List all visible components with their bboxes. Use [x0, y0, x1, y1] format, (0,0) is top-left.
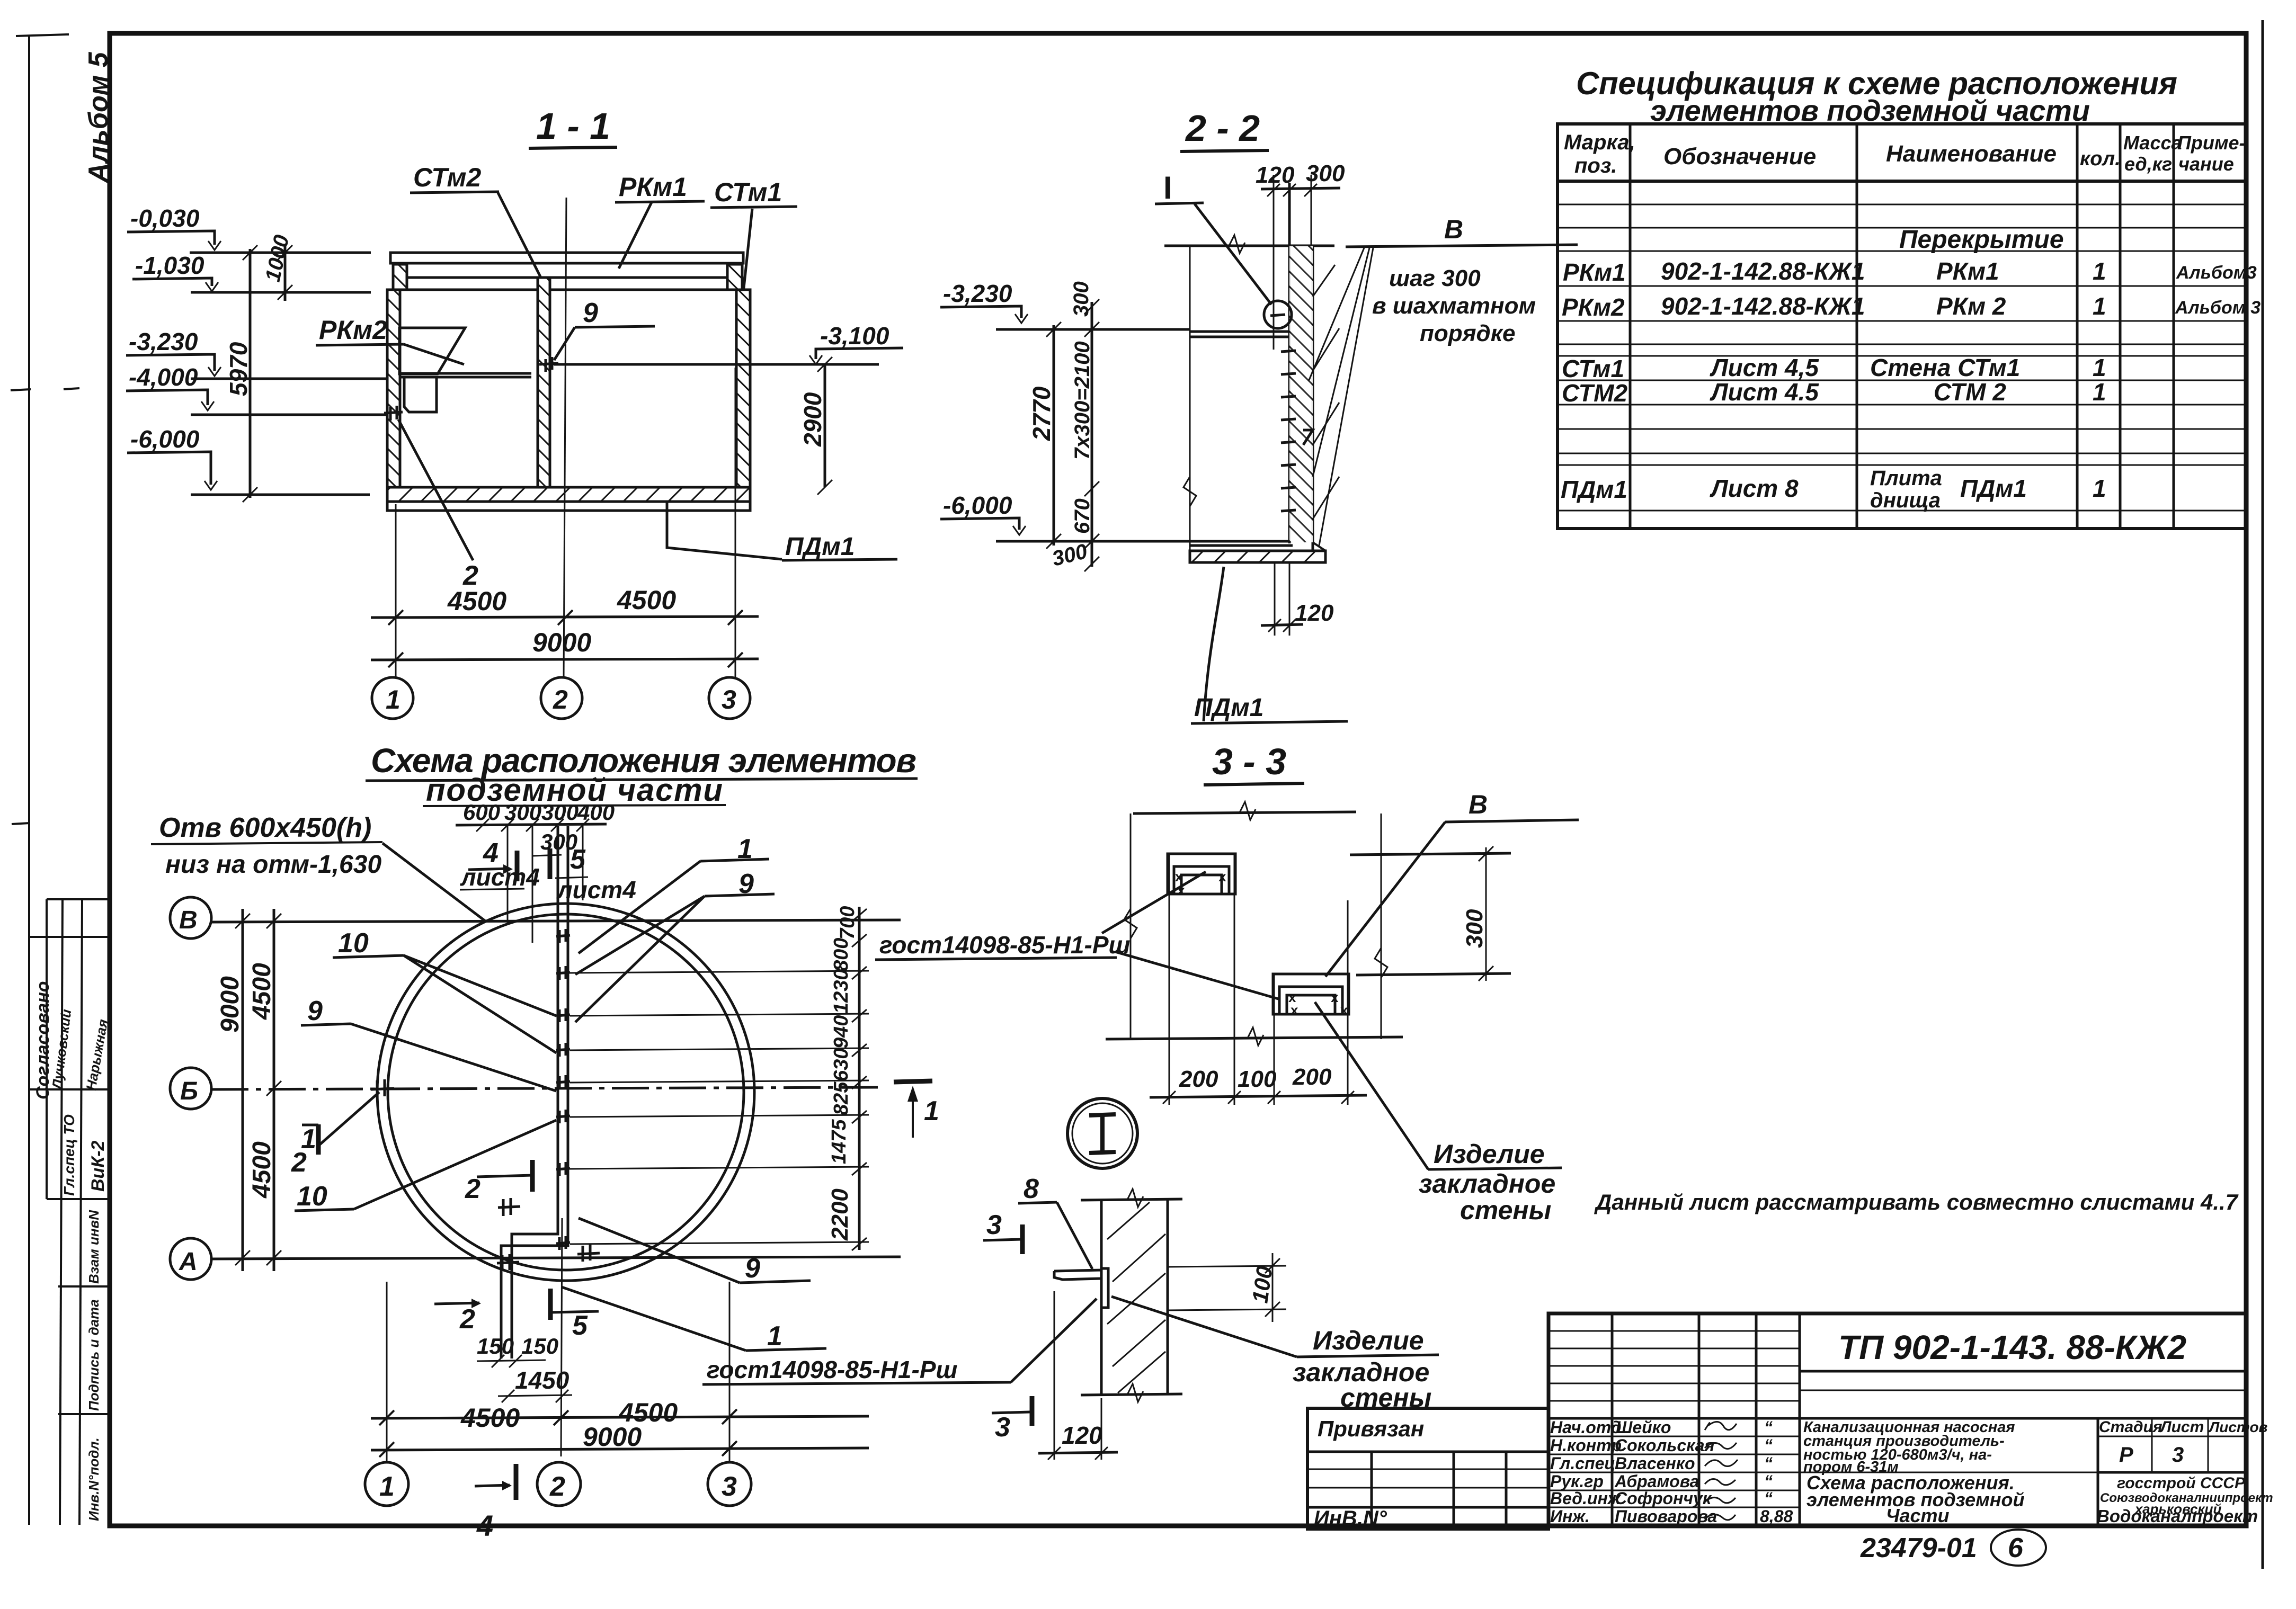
label 9 left	[307, 996, 323, 1026]
header texts	[1564, 131, 2246, 177]
svg-text:Альбом 3: Альбом 3	[2175, 298, 2261, 318]
wall top break	[1081, 1199, 1182, 1200]
svg-text:СТМ2: СТМ2	[1562, 379, 1627, 407]
sheet name cell	[1800, 1472, 2098, 1473]
SECTION22	[940, 108, 1578, 723]
svg-text:Листов: Листов	[2208, 1419, 2268, 1435]
svg-text:Абрамова: Абрамова	[1614, 1472, 1699, 1491]
break mark top	[1229, 235, 1245, 253]
svg-text:700: 700	[836, 906, 859, 940]
svg-text:300: 300	[541, 800, 579, 825]
svg-text:630: 630	[830, 1048, 852, 1081]
wall hatch	[1107, 1202, 1165, 1393]
svg-text:120: 120	[1062, 1422, 1102, 1449]
note Otv 600x450	[159, 812, 381, 879]
title 3-3	[1212, 741, 1286, 782]
svg-text:В: В	[1469, 790, 1488, 819]
label 1 bottom right	[767, 1321, 782, 1352]
bottom line with break	[1106, 1037, 1403, 1039]
big plan title line2	[426, 772, 723, 808]
title 2-2	[1185, 108, 1260, 149]
level line right chamber	[554, 363, 879, 366]
svg-text:В: В	[179, 906, 198, 934]
joint mark left wall	[384, 406, 403, 421]
stadia list listov	[2097, 1418, 2099, 1525]
header bottom	[1558, 180, 2246, 183]
svg-text:600: 600	[463, 800, 500, 825]
svg-text:Б: Б	[180, 1077, 198, 1105]
spec title	[1576, 66, 2177, 127]
svg-text:1: 1	[2093, 354, 2106, 381]
label 9 bottom right	[745, 1253, 760, 1284]
TITLEBLOCK	[1307, 1313, 2273, 1566]
svg-text:2 - 2: 2 - 2	[1185, 108, 1260, 149]
svg-text:4500: 4500	[617, 585, 676, 615]
channel section 1	[1168, 854, 1235, 894]
note danny list	[1594, 1190, 2239, 1214]
big plan title line1	[371, 741, 916, 780]
svg-text:элементов подземной части: элементов подземной части	[1650, 94, 2090, 127]
sidebar row lines	[47, 898, 110, 900]
svg-text:1: 1	[386, 685, 401, 714]
left break line	[1189, 246, 1191, 562]
svg-text:x: x	[1291, 1002, 1298, 1018]
svg-text:2770: 2770	[1028, 386, 1055, 441]
svg-text:-3,230: -3,230	[943, 280, 1012, 307]
wall jog bottom	[512, 1218, 558, 1358]
leader izdelie1	[1315, 1002, 1428, 1169]
table outer	[1558, 124, 2246, 529]
axis circle B	[170, 1068, 211, 1109]
svg-text:-0,030: -0,030	[130, 204, 200, 232]
svg-text:1: 1	[2093, 475, 2106, 502]
elevation -3,100	[820, 322, 889, 350]
interior step box	[404, 377, 437, 412]
detail circle on wall	[1264, 301, 1292, 328]
dim stack 300/7x300/670/300	[1091, 302, 1093, 567]
row PDm1	[1561, 467, 2106, 512]
axis circle A	[170, 1238, 211, 1280]
axis circle 3	[709, 677, 750, 719]
svg-text:РКм1: РКм1	[1936, 257, 1999, 285]
top dims 600 300 300 400	[463, 800, 615, 825]
svg-text:Р: Р	[2119, 1443, 2133, 1467]
svg-text:чание: чание	[2178, 153, 2234, 175]
svg-text:100: 100	[1247, 1264, 1277, 1304]
grid line B dashdot	[211, 1087, 879, 1089]
grid line A	[211, 1257, 901, 1259]
rebar cluster template	[556, 929, 570, 943]
svg-text:“: “	[1764, 1418, 1773, 1437]
svg-text:Н.контр: Н.контр	[1550, 1436, 1622, 1455]
svg-text:Стена СТм1: Стена СТм1	[1870, 354, 2020, 381]
label PDm1	[785, 533, 855, 561]
leader PDm1	[1204, 567, 1224, 721]
svg-text:Отв 600х450(h): Отв 600х450(h)	[159, 812, 371, 843]
svg-text:x: x	[1331, 989, 1339, 1005]
label RKm2	[319, 315, 387, 345]
svg-text:ИнВ.N°: ИнВ.N°	[1314, 1507, 1387, 1530]
dim 300 right	[1485, 847, 1487, 981]
dim 9000 vertical	[242, 909, 244, 1271]
staple Z mark on wall	[1303, 430, 1313, 445]
elevation -6,000	[943, 491, 1012, 519]
title 1-1	[536, 105, 610, 147]
svg-text:2: 2	[459, 1304, 475, 1335]
svg-text:4: 4	[476, 1509, 493, 1542]
level line -1,030	[191, 291, 371, 294]
svg-text:Вед.инж: Вед.инж	[1550, 1489, 1621, 1508]
svg-text:1: 1	[924, 1096, 939, 1127]
svg-text:1230: 1230	[830, 969, 852, 1014]
plan axis extensions	[386, 1282, 388, 1462]
axis line 2	[564, 198, 566, 678]
svg-text:9: 9	[307, 996, 323, 1026]
svg-text:300: 300	[1462, 909, 1488, 948]
label RKm1	[619, 172, 687, 202]
leader otv	[382, 843, 485, 921]
dim 9000 bottom	[583, 1422, 642, 1452]
roof top plank	[390, 253, 743, 263]
svg-text:“: “	[1764, 1454, 1773, 1473]
GOST label 2	[707, 1356, 958, 1383]
level line -3,230	[191, 378, 387, 380]
top opening verticals	[507, 825, 509, 923]
dim 4500 4500 bottom	[460, 1398, 678, 1433]
left corner block	[393, 264, 407, 290]
dim line 4500-4500	[371, 616, 759, 618]
svg-text:РКм1: РКм1	[1563, 258, 1626, 286]
svg-text:2: 2	[465, 1174, 480, 1204]
svg-text:-3,100: -3,100	[820, 322, 889, 350]
rebar ticks on wall	[1281, 351, 1296, 511]
bottom rebar clusters	[497, 1198, 600, 1271]
wall foot	[1313, 542, 1325, 562]
svg-text:ПДм1: ПДм1	[1960, 475, 2027, 502]
leader izdelie2	[1111, 1297, 1297, 1357]
svg-text:-6,000: -6,000	[130, 425, 200, 453]
backfill hatch strokes	[1313, 265, 1339, 519]
column lines	[1629, 124, 1632, 529]
svg-text:Водоканалпроект: Водоканалпроект	[2097, 1506, 2258, 1526]
leader 1 top	[737, 834, 753, 864]
svg-text:4500: 4500	[447, 586, 506, 616]
svg-text:3: 3	[986, 1210, 1002, 1240]
row lines	[1558, 204, 2246, 511]
svg-text:x: x	[1340, 1002, 1348, 1018]
tank outer circle	[377, 904, 754, 1281]
svg-text:РКм2: РКм2	[319, 315, 387, 345]
detail circle I	[1067, 1098, 1137, 1168]
svg-text:1: 1	[2093, 378, 2106, 406]
svg-text:670: 670	[1071, 498, 1094, 534]
svg-text:5: 5	[572, 1310, 588, 1341]
leader STm1 to right wall	[743, 209, 752, 298]
svg-text:1475: 1475	[828, 1119, 850, 1164]
signature rows	[1549, 1436, 1800, 1507]
svg-text:3 - 3: 3 - 3	[1212, 741, 1286, 782]
svg-text:I: I	[1163, 170, 1172, 205]
svg-text:9: 9	[583, 298, 598, 328]
elevation -4,000	[129, 363, 198, 391]
svg-text:Марка,: Марка,	[1564, 131, 1635, 154]
section mark 4 bottom	[475, 1485, 510, 1486]
leader I to circle	[1195, 204, 1271, 305]
svg-text:госстрой СССР: госстрой СССР	[2117, 1474, 2246, 1492]
leader PDm1	[667, 502, 782, 559]
top line with break	[1133, 812, 1356, 814]
signatures squiggles	[1705, 1422, 1738, 1519]
axis line 1	[395, 504, 397, 678]
svg-text:Лист 4,5: Лист 4,5	[1710, 354, 1819, 381]
GOST label 1	[879, 931, 1131, 959]
axis circle 1	[372, 677, 413, 719]
label 9	[583, 298, 598, 328]
label STm1	[714, 177, 782, 207]
dim 150 150	[477, 1334, 558, 1358]
svg-text:ПДм1: ПДм1	[1561, 476, 1627, 503]
stamp verticals left part	[1611, 1313, 1614, 1525]
svg-text:Подпись и дата: Подпись и дата	[86, 1299, 102, 1411]
svg-text:СТМ 2: СТМ 2	[1934, 378, 2006, 406]
izdelie label 1	[1419, 1139, 1555, 1225]
leader 9 to joint	[554, 327, 575, 360]
svg-text:А: А	[179, 1248, 198, 1276]
wall hatch	[1289, 246, 1313, 542]
svg-text:Гл.спец ТО: Гл.спец ТО	[61, 1114, 77, 1196]
wall bottom break	[1081, 1394, 1182, 1395]
svg-text:Обозначение: Обозначение	[1663, 144, 1816, 169]
dim line 9000	[371, 659, 759, 660]
svg-text:902-1-142.88-КЖ1: 902-1-142.88-КЖ1	[1661, 292, 1865, 320]
svg-text:Пивоварова: Пивоварова	[1615, 1507, 1717, 1526]
svg-text:ВиК-2: ВиК-2	[88, 1140, 108, 1192]
axis circle V	[170, 897, 211, 938]
svg-text:3: 3	[995, 1412, 1010, 1443]
svg-text:Гл.спец: Гл.спец	[1550, 1454, 1615, 1473]
leader RKm2	[404, 344, 464, 364]
axis circle 1 bottom	[365, 1462, 408, 1506]
label STm2	[413, 163, 481, 192]
svg-text:Софрончук: Софрончук	[1615, 1489, 1712, 1508]
svg-text:“: “	[1764, 1472, 1773, 1491]
leader 2 to wall joint	[398, 419, 473, 560]
level line -6,000	[996, 540, 1190, 543]
dim 2900	[824, 364, 826, 487]
elevation -1,030	[135, 252, 204, 279]
wall inner face	[1288, 183, 1291, 543]
row STm1	[1562, 354, 2106, 382]
rebar cluster on B axis left	[371, 1079, 394, 1097]
svg-text:Данный лист рассматривать совм: Данный лист рассматривать совместно слис…	[1594, 1190, 2239, 1214]
level line -6,000	[191, 494, 370, 496]
svg-text:23479-01: 23479-01	[1860, 1533, 1977, 1563]
roof slab lines	[398, 276, 737, 279]
designation cell	[1800, 1370, 2246, 1373]
row Perekrytie	[1899, 226, 2064, 254]
tank inner circle	[388, 914, 744, 1270]
svg-text:2900: 2900	[799, 392, 826, 447]
svg-text:гост14098-85-Н1-Рш: гост14098-85-Н1-Рш	[879, 931, 1131, 959]
horizontal tie lines right	[570, 971, 869, 1244]
ground top line	[1164, 245, 1334, 247]
svg-text:10: 10	[338, 928, 369, 959]
joint mark middle wall	[539, 357, 558, 372]
flag 4 list4	[483, 838, 499, 869]
svg-text:СТм2: СТм2	[413, 163, 481, 192]
svg-text:300: 300	[1070, 281, 1093, 317]
svg-text:4500: 4500	[248, 1141, 276, 1199]
svg-text:Лист: Лист	[2159, 1418, 2204, 1436]
svg-text:Лист 8: Лист 8	[1710, 475, 1799, 502]
RKm2 plate trapezoid	[399, 328, 465, 374]
svg-text:Нач.отд: Нач.отд	[1550, 1418, 1622, 1437]
label 2	[462, 560, 478, 591]
bottom slab double line	[1190, 540, 1289, 543]
elevation -3,230	[129, 328, 198, 355]
axis circle 3 bottom	[708, 1462, 751, 1506]
dim 1450	[515, 1366, 569, 1394]
vertical construction lines	[1131, 814, 1381, 1105]
svg-text:2200: 2200	[827, 1188, 853, 1241]
svg-text:В: В	[1444, 214, 1463, 244]
axis circle 2 bottom	[537, 1462, 581, 1506]
svg-text:10: 10	[297, 1181, 327, 1212]
level line -3,230	[996, 328, 1190, 331]
svg-text:1: 1	[2093, 292, 2106, 320]
svg-text:Взам инвN: Взам инвN	[86, 1210, 102, 1284]
sidebar column lines	[46, 899, 48, 1199]
svg-text:1: 1	[301, 1124, 316, 1155]
svg-text:x: x	[1218, 869, 1226, 884]
svg-text:кол.: кол.	[2080, 148, 2121, 170]
label 10	[338, 928, 369, 959]
staple leaders	[1309, 248, 1364, 381]
svg-text:Изделие: Изделие	[1434, 1139, 1545, 1169]
svg-text:9000: 9000	[532, 628, 591, 657]
svg-text:1: 1	[767, 1321, 782, 1352]
flag 5 list4	[570, 844, 586, 875]
right wall	[736, 290, 750, 487]
section mark 5	[548, 1289, 553, 1320]
row STM2	[1562, 378, 2106, 407]
svg-text:гост14098-85-Н1-Рш: гост14098-85-Н1-Рш	[707, 1356, 958, 1383]
dim 120 bottom	[1054, 1291, 1055, 1460]
svg-text:ТП 902-1-143. 88-КЖ2: ТП 902-1-143. 88-КЖ2	[1838, 1328, 2186, 1366]
svg-text:-1,030: -1,030	[135, 252, 204, 279]
svg-text:1 - 1: 1 - 1	[536, 105, 610, 147]
svg-text:Перекрытие: Перекрытие	[1899, 226, 2064, 254]
PLAN	[151, 800, 1131, 1542]
flag 8	[1024, 1174, 1039, 1204]
leader V to channel2	[1325, 822, 1445, 977]
wall right line	[1167, 1200, 1169, 1394]
leader RKm1 to roof	[619, 202, 652, 269]
org cell	[2097, 1474, 2273, 1526]
level line -4,000	[191, 414, 395, 416]
svg-text:Рук.гр: Рук.гр	[1550, 1472, 1604, 1491]
stamp lower header line	[1549, 1417, 2246, 1420]
elevation -0,030	[130, 204, 200, 232]
svg-text:940: 940	[830, 1015, 852, 1049]
dim 1000 vertical	[284, 245, 287, 301]
section mark 3 bottom	[995, 1412, 1010, 1443]
detail mark I	[1163, 170, 1172, 205]
svg-text:Инж.: Инж.	[1550, 1507, 1590, 1526]
svg-text:3: 3	[2172, 1443, 2184, 1467]
svg-text:Части: Части	[1886, 1505, 1950, 1526]
section mark 2 upper	[465, 1174, 480, 1204]
svg-text:-4,000: -4,000	[129, 363, 198, 391]
top dim line	[1261, 188, 1340, 189]
svg-text:1: 1	[2093, 257, 2106, 285]
channel section 2	[1273, 974, 1349, 1014]
wall left face	[1100, 1200, 1103, 1394]
svg-text:РКм1: РКм1	[619, 172, 687, 202]
main stamp outer	[1549, 1313, 2246, 1525]
svg-text:Приме-: Приме-	[2177, 132, 2246, 154]
svg-text:200: 200	[1179, 1066, 1218, 1092]
svg-text:150: 150	[521, 1334, 558, 1358]
svg-text:Масса: Масса	[2123, 132, 2182, 154]
bottom slab band hatched	[1190, 551, 1325, 562]
svg-text:Наименование: Наименование	[1886, 141, 2057, 167]
svg-text:СТм1: СТм1	[714, 177, 782, 207]
svg-text:Власенко: Власенко	[1615, 1454, 1695, 1473]
svg-text:Плита: Плита	[1870, 467, 1942, 490]
svg-text:Инв.N°подл.: Инв.N°подл.	[86, 1437, 102, 1521]
dim 100 right	[1168, 1266, 1286, 1267]
svg-text:Альбом 5: Альбом 5	[83, 51, 114, 184]
leader gost to channel2	[1115, 952, 1278, 999]
svg-text:3: 3	[722, 1471, 737, 1502]
svg-text:400: 400	[577, 800, 615, 825]
svg-text:ПДм1: ПДм1	[785, 533, 855, 561]
middle wall	[538, 278, 550, 487]
svg-text:РКм 2: РКм 2	[1936, 292, 2006, 320]
svg-text:6: 6	[2008, 1533, 2024, 1563]
svg-text:5970: 5970	[225, 342, 252, 396]
svg-text:4500: 4500	[248, 963, 276, 1020]
svg-text:шаг 300: шаг 300	[1389, 265, 1481, 291]
left wall	[387, 290, 400, 487]
svg-text:1: 1	[379, 1471, 395, 1502]
wall plan double line upper	[557, 826, 559, 1218]
svg-text:Шейко: Шейко	[1616, 1418, 1671, 1437]
svg-text:“: “	[1764, 1436, 1773, 1455]
dim texts 120 300	[1256, 160, 1345, 188]
svg-text:Альбом3: Альбом3	[2176, 263, 2257, 283]
section mark 3 top	[986, 1210, 1002, 1240]
svg-text:9000: 9000	[216, 976, 244, 1033]
dim line 200 100 200	[1150, 1095, 1367, 1097]
section mark 2 lower with arrow	[434, 1303, 479, 1304]
section mark 1 left	[316, 1124, 321, 1155]
label 2 left	[291, 1147, 307, 1178]
svg-text:2: 2	[549, 1471, 565, 1502]
doc number bottom	[1860, 1533, 1977, 1563]
svg-text:днища: днища	[1870, 489, 1941, 512]
leader 9 top	[738, 869, 754, 899]
DET33	[1102, 741, 2239, 1225]
anchor angle	[1054, 1268, 1108, 1308]
svg-text:3: 3	[722, 685, 736, 714]
privyazan table	[1307, 1408, 1549, 1529]
svg-text:поз.: поз.	[1574, 154, 1617, 177]
svg-text:5: 5	[570, 844, 586, 875]
svg-text:2: 2	[553, 685, 568, 714]
SECTION11	[126, 105, 918, 808]
